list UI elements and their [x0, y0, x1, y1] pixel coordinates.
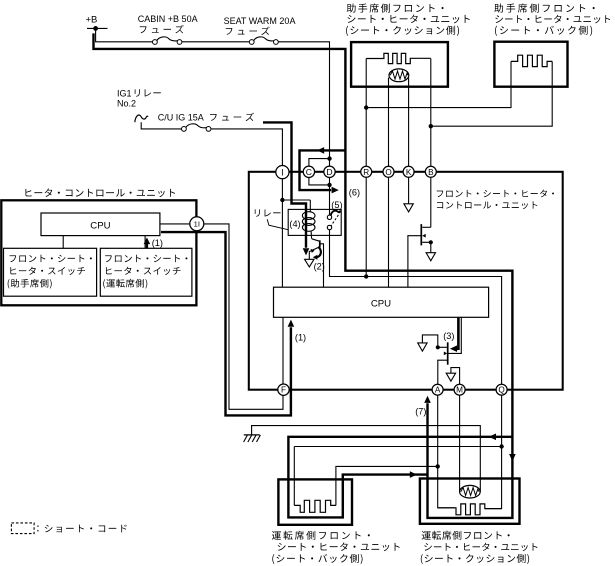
transistor Q1 relay driver: [309, 239, 323, 287]
node Q branch dot: [499, 444, 503, 448]
heater element (passenger cushion): [366, 53, 431, 63]
legend label short cord: [37, 525, 126, 533]
wire connector M ground hook: [451, 368, 460, 385]
connector Q: [496, 384, 507, 395]
connector 1I: [190, 217, 204, 231]
wire thermostat to connector K: [408, 78, 410, 167]
wire short-cord jumper C-D (bottom): [309, 177, 328, 185]
box CPU (front seat heater control unit): [274, 287, 489, 317]
connector M: [454, 384, 465, 395]
connector O: [383, 166, 394, 177]
arrow into CPU (1): [144, 238, 151, 245]
box seat heater unit driver cushion: [420, 479, 520, 524]
label fuse SEAT WARM (フューズ): [226, 27, 270, 35]
wire +B stub: [87, 27, 108, 29]
svg-text:No.2: No.2: [117, 99, 136, 109]
wire thick current: CPU to FET (3) gate: [456, 318, 458, 349]
label relay (リレー): [255, 209, 281, 216]
wire +B to fuse CABIN: [96, 28, 153, 41]
wire thick current: switch to CPU (1): [146, 244, 148, 249]
arrow current flow down (right feed): [509, 454, 516, 461]
box front seat heater switch (passenger): [4, 248, 97, 296]
node relay output junction at R: [364, 274, 368, 278]
heater element (driver back): [294, 500, 336, 512]
wire 1I to connector F: [204, 224, 283, 409]
label fuse C/U IG (フューズ): [210, 113, 254, 121]
ground continuation open triangle (K): [404, 204, 413, 212]
node IG branch dot: [280, 198, 284, 202]
wire SEAT WARM fuse to connector D: [278, 42, 329, 167]
fuse CABIN +B 50A: [153, 37, 182, 45]
wire IG1 relay to fuse C/U IG: [141, 122, 181, 129]
wire switch driver to CPU: [144, 236, 146, 249]
svg-text:(2): (2): [314, 262, 325, 272]
box CPU (heater control unit): [41, 213, 160, 236]
svg-text:F: F: [281, 386, 286, 395]
svg-text:(1): (1): [152, 238, 163, 248]
svg-text:CABIN +B 50A: CABIN +B 50A: [138, 14, 198, 24]
wire heater element (passenger cushion) to connector R: [365, 59, 367, 167]
svg-text:(3): (3): [443, 331, 454, 341]
wire thick current path: CPU out via 1I and back to F/(1): [161, 232, 291, 415]
connector B: [425, 166, 436, 177]
svg-text:B: B: [428, 168, 434, 177]
relay contact fixed point (bottom): [327, 225, 331, 229]
relay coil (4) loops: [302, 200, 315, 239]
ground continuation open triangle (FET 3): [418, 343, 427, 351]
transistor FET (passenger heater driver): [408, 224, 431, 287]
connector I: [276, 166, 289, 179]
thermostat (passenger cushion): [389, 69, 409, 82]
connector R: [361, 166, 372, 177]
label passenger front seat heater unit (back) line1: [494, 3, 594, 12]
svg-text:C: C: [306, 167, 312, 177]
connector C: [303, 166, 314, 177]
svg-text:CPU: CPU: [90, 221, 110, 232]
connector D: [324, 166, 335, 177]
arrow current flow right (loop bottom): [332, 187, 339, 194]
fuse SEAT WARM 20A: [249, 37, 278, 45]
wire thermostat to connector O: [388, 78, 390, 167]
svg-text:(5): (5): [331, 200, 342, 210]
svg-text:+B: +B: [86, 14, 98, 25]
svg-text:K: K: [406, 168, 412, 177]
arrow current flow up into A (7): [424, 396, 431, 403]
wire connector B to FET drain: [430, 177, 432, 227]
wire thick current path: +B feed (main): [94, 33, 513, 518]
svg-text:(6): (6): [349, 187, 360, 197]
svg-text:(1): (1): [295, 333, 306, 343]
node FET source dot: [429, 240, 433, 244]
label heater control unit title: [25, 188, 175, 197]
arrow current flow curl through transistor: [315, 247, 321, 257]
wire connector K to ground continuation: [408, 177, 410, 204]
node D-wire junction dot (short cord): [327, 156, 331, 160]
arrow current flow up into CPU pin (1): [288, 320, 295, 327]
label front seat heater control unit line1: [437, 190, 554, 198]
wire CPU to connector F: [282, 317, 284, 384]
arrowhead of transistor flow curl: [313, 255, 318, 260]
arrow into FET (3) gate: [450, 345, 457, 352]
svg-text:Q: Q: [498, 386, 504, 395]
wire IG to relay coil: [282, 199, 310, 201]
wire connector R to relay output line: [365, 177, 367, 274]
svg-text:C/U IG 15A: C/U IG 15A: [158, 113, 204, 123]
thermostat (driver cushion): [460, 485, 481, 498]
relay label pointer line: [267, 219, 288, 230]
box seat heater unit driver back: [278, 479, 352, 524]
box seat heater unit passenger back: [494, 42, 567, 87]
svg-text:SEAT WARM 20A: SEAT WARM 20A: [224, 16, 296, 26]
label passenger front seat heater unit (cushion) line1: [347, 3, 444, 12]
ground continuation open triangle (M): [446, 373, 455, 381]
wire connector Q down to driver cushion element: [485, 395, 502, 509]
node B junction to seat-back unit: [429, 124, 433, 128]
wire fuse CABIN to fuse SEAT WARM: [182, 41, 249, 43]
wire ground to thermostat (driver cushion): [252, 426, 481, 492]
label front seat heater control unit line2: [437, 201, 537, 209]
wire CPU to connector 1I: [160, 223, 190, 225]
wire thick current path: branch to seat-back heater (driver seat): [288, 437, 512, 518]
svg-text:IG1: IG1: [117, 88, 132, 98]
wire connector O to CPU: [388, 177, 390, 287]
wire connector A down to driver cushion element: [438, 395, 455, 508]
label IG1 relay (リレー): [135, 89, 161, 97]
wire driver back element from Q branch: [293, 447, 295, 506]
label driver front seat heater unit (back) line1: [272, 531, 370, 540]
arrow current flow left (to back heater): [489, 434, 496, 441]
wire connector M to thermostat (driver cushion): [459, 395, 461, 492]
ground continuation open triangle (FET source): [426, 253, 435, 261]
relay contact lever curl: [331, 210, 341, 215]
relay contact fixed point (top): [327, 215, 331, 219]
svg-text:M: M: [456, 386, 463, 395]
relay contact alternate position (dashed): [331, 215, 339, 226]
box front seat heater switch (driver): [100, 248, 192, 296]
heater element (driver cushion): [438, 504, 502, 515]
svg-text:I: I: [281, 167, 284, 177]
connector A: [432, 384, 443, 395]
node +B junction dot: [93, 26, 98, 31]
node R junction to seat-back unit: [364, 105, 368, 109]
wire heater element to connector B: [430, 59, 432, 167]
svg-text:(4): (4): [289, 219, 300, 229]
fuse C/U IG 15A: [182, 124, 211, 132]
arrow current flow left (loop top): [317, 147, 324, 154]
wire Q branch to driver back element: [294, 446, 501, 448]
box relay: [288, 209, 341, 235]
wire switch passenger to CPU: [62, 236, 64, 249]
relay IG1 contact squiggle symbol: [135, 115, 148, 122]
node FET(3) drain dot: [436, 345, 440, 349]
box seat heater unit passenger cushion: [351, 42, 448, 87]
legend short cord dashed box: [11, 523, 34, 534]
box heater control unit: [1, 200, 196, 305]
wire relay contact output to R and Q: [330, 230, 502, 384]
arrow current flow down through relay coil (to transistor): [303, 248, 310, 255]
svg-text:R: R: [363, 168, 369, 177]
wire C/U IG fuse to connector I: [211, 129, 283, 166]
wire connector I to CPU (IG power): [281, 178, 283, 287]
svg-text:CPU: CPU: [371, 299, 391, 310]
wire thick current path: short-cord loop around C/D: [300, 150, 346, 190]
svg-text:(7): (7): [415, 406, 426, 416]
transistor FET (3) driver heater driver: [422, 317, 461, 384]
svg-text:O: O: [385, 168, 391, 177]
node A branch dot: [436, 464, 440, 468]
label fuse CABIN (フューズ): [140, 25, 184, 33]
wire back element (driver) to A branch: [336, 466, 438, 505]
box front seat heater control unit: [249, 172, 563, 390]
label driver front seat heater unit (cushion) line1: [422, 531, 510, 540]
connector K: [403, 166, 414, 177]
svg-text:A: A: [435, 386, 441, 395]
arrow current flow right (back heater return): [410, 471, 417, 478]
wire back element to B junction: [431, 61, 552, 126]
svg-text:D: D: [326, 167, 332, 177]
connector F: [278, 384, 289, 395]
wire thick current path: C/U IG feed to relay coil: [263, 122, 306, 247]
node D-wire lower junction dot (short cord): [327, 183, 331, 187]
wire back element to R junction: [366, 61, 511, 107]
ground (chassis): [244, 435, 261, 442]
wire short-cord jumper C-D (top): [309, 159, 328, 167]
heater element (passenger back): [511, 55, 552, 66]
svg-text:1I: 1I: [194, 220, 200, 229]
wire connector D to relay contact: [329, 177, 331, 215]
ground continuation (2) open triangle: [305, 259, 314, 267]
